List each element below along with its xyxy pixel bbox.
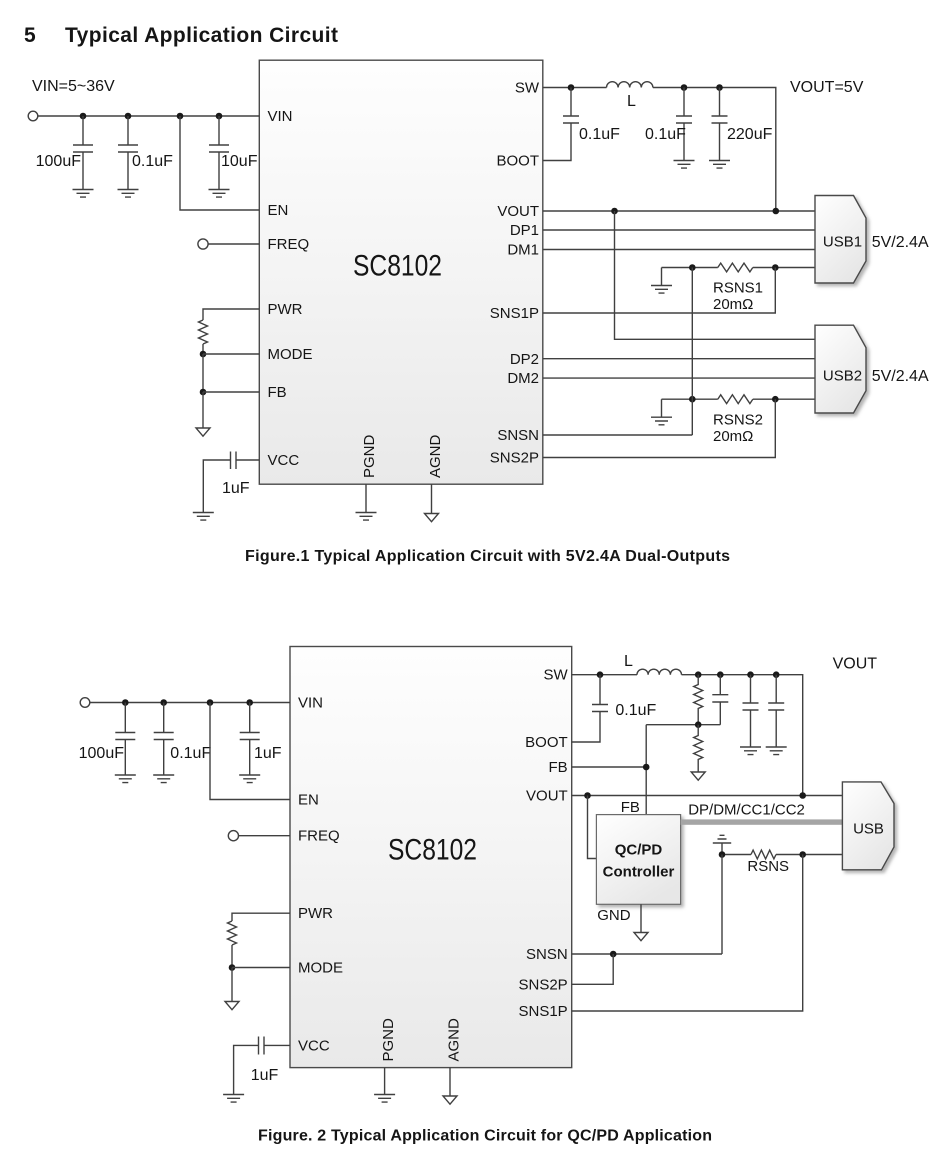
ground bbox=[118, 190, 139, 198]
wire PWR bbox=[203, 309, 259, 320]
node out cap2 bbox=[716, 84, 723, 91]
QC/PD controller U3 bbox=[596, 815, 680, 905]
wire VOUT bbox=[543, 210, 815, 212]
wire SNS1P bbox=[543, 268, 776, 314]
node SW-boot bbox=[568, 84, 575, 91]
wire SNSN vertical bbox=[691, 268, 693, 436]
svg-text:SNS2P: SNS2P bbox=[518, 976, 567, 993]
svg-text:VIN: VIN bbox=[268, 108, 293, 125]
svg-text:0.1uF: 0.1uF bbox=[170, 745, 211, 762]
bus DP/DM/CC1/CC2 bbox=[681, 819, 843, 824]
ground bbox=[709, 161, 730, 169]
wire inductor to VOUT rail bbox=[653, 88, 776, 212]
capacitor C2 0.1uF bbox=[118, 116, 138, 189]
ground bbox=[674, 161, 695, 169]
wire DP1 bbox=[543, 229, 815, 231]
svg-text:RSNS1: RSNS1 bbox=[713, 280, 763, 297]
wire DM2 bbox=[543, 377, 815, 379]
svg-text:VOUT: VOUT bbox=[833, 656, 878, 673]
svg-text:FB: FB bbox=[621, 799, 640, 816]
ground (signal) bbox=[425, 514, 439, 522]
input terminal bbox=[80, 698, 90, 708]
resistor RSNS1 bbox=[718, 263, 753, 272]
svg-text:USB2: USB2 bbox=[823, 368, 862, 385]
ground bbox=[223, 1095, 244, 1103]
svg-text:L: L bbox=[624, 653, 633, 670]
svg-text:VCC: VCC bbox=[298, 1037, 330, 1054]
ground (signal) bbox=[196, 428, 210, 436]
node MODE bbox=[229, 964, 236, 971]
ground bbox=[153, 775, 174, 783]
ground bbox=[374, 1095, 395, 1103]
resistor R1 (mode divider) bbox=[199, 320, 208, 344]
capacitor C7 220uF bbox=[712, 88, 728, 161]
wire SW to inductor bbox=[572, 674, 637, 676]
svg-text:SNS1P: SNS1P bbox=[518, 1003, 567, 1020]
ground (signal) bbox=[691, 772, 705, 780]
capacitor C12 0.1uF bootstrap bbox=[572, 675, 608, 742]
svg-text:VCC: VCC bbox=[268, 452, 300, 469]
svg-text:BOOT: BOOT bbox=[525, 734, 568, 751]
ground bbox=[209, 190, 230, 198]
svg-text:AGND: AGND bbox=[427, 434, 444, 478]
USB2 connector bbox=[815, 325, 866, 413]
node MODE bbox=[200, 351, 207, 358]
ground bbox=[239, 775, 260, 783]
svg-text:1uF: 1uF bbox=[254, 745, 282, 762]
node RSNS1 left bbox=[689, 264, 696, 271]
svg-text:5V/2.4A: 5V/2.4A bbox=[872, 234, 929, 251]
node divider top bbox=[695, 671, 702, 678]
capacitor C1 100uF bbox=[73, 116, 93, 189]
svg-text:FB: FB bbox=[549, 759, 568, 776]
wire VOUT to USB2 bbox=[615, 211, 816, 339]
svg-text:AGND: AGND bbox=[446, 1018, 463, 1062]
node RSNS right bbox=[799, 851, 806, 858]
svg-text:100uF: 100uF bbox=[36, 153, 82, 170]
svg-text:0.1uF: 0.1uF bbox=[645, 126, 686, 143]
node on VIN rail bbox=[216, 113, 223, 120]
inductor L bbox=[607, 82, 653, 88]
wire VOUT to controller bbox=[588, 796, 597, 859]
node FB bbox=[200, 389, 207, 396]
svg-text:DP2: DP2 bbox=[510, 351, 539, 368]
node VOUT-USB2 tap bbox=[611, 208, 618, 215]
svg-text:5V/2.4A: 5V/2.4A bbox=[872, 368, 929, 385]
ground (signal) bbox=[634, 933, 648, 941]
wire DM1 bbox=[543, 249, 815, 251]
ground bbox=[651, 286, 672, 294]
capacitor C5 0.1uF bootstrap bbox=[543, 88, 579, 161]
wire DP2 bbox=[543, 358, 815, 360]
inductor L bbox=[637, 669, 681, 675]
wire EN bbox=[210, 703, 290, 800]
wire PGND bbox=[365, 484, 367, 512]
svg-text:20mΩ: 20mΩ bbox=[713, 296, 753, 313]
svg-text:0.1uF: 0.1uF bbox=[579, 126, 620, 143]
wire inductor to VOUT rail bbox=[682, 675, 803, 796]
wire FB bbox=[203, 391, 259, 393]
svg-text:RSNS: RSNS bbox=[747, 858, 789, 875]
wire VOUT bbox=[572, 795, 843, 797]
node out cap1 bbox=[681, 84, 688, 91]
ground bbox=[356, 513, 377, 521]
svg-text:SNSN: SNSN bbox=[497, 427, 539, 444]
wire resistor to MODE node bbox=[231, 945, 233, 968]
input terminal bbox=[28, 111, 38, 121]
svg-text:PWR: PWR bbox=[268, 301, 303, 318]
FREQ terminal bbox=[198, 239, 208, 249]
capacitor C3 10uF bbox=[209, 116, 229, 189]
svg-text:PGND: PGND bbox=[361, 434, 378, 478]
op-amp U1 IC SC8102 body bbox=[259, 60, 543, 484]
svg-text:0.1uF: 0.1uF bbox=[615, 702, 656, 719]
svg-text:10uF: 10uF bbox=[221, 153, 258, 170]
svg-text:MODE: MODE bbox=[298, 960, 343, 977]
USB1 connector bbox=[815, 196, 866, 284]
svg-text:RSNS2: RSNS2 bbox=[713, 412, 763, 429]
node FB divider bbox=[695, 721, 702, 728]
svg-text:SNS1P: SNS1P bbox=[490, 305, 539, 322]
capacitor C9 0.1uF bbox=[154, 703, 174, 775]
svg-text:20mΩ: 20mΩ bbox=[713, 428, 753, 445]
wire SNS1P bbox=[572, 855, 803, 1012]
node ff cap top bbox=[717, 671, 724, 678]
resistor R2 (mode divider) bbox=[228, 921, 237, 945]
svg-text:FREQ: FREQ bbox=[298, 828, 340, 845]
svg-text:SW: SW bbox=[515, 80, 540, 97]
wire FREQ bbox=[208, 243, 259, 245]
wire SNSN bbox=[572, 855, 722, 955]
resistor RSNS2 bbox=[718, 395, 753, 404]
ground bbox=[740, 747, 761, 755]
wire PGND bbox=[384, 1068, 386, 1094]
node SNSN tap bbox=[610, 951, 617, 958]
wire PWR bbox=[232, 913, 290, 921]
node VOUT rail join bbox=[773, 208, 780, 215]
node RSNS left bbox=[719, 851, 726, 858]
chassis ground (inverted) bbox=[713, 835, 731, 854]
svg-text:5: 5 bbox=[24, 24, 36, 47]
svg-text:Typical Application Circuit: Typical Application Circuit bbox=[65, 24, 338, 47]
node out cap2 bbox=[773, 671, 780, 678]
wire RSNS2 net bbox=[662, 399, 816, 417]
wire AGND bbox=[449, 1068, 451, 1096]
node on VIN rail bbox=[246, 699, 253, 706]
ground (signal) bbox=[443, 1096, 457, 1104]
wire EN bbox=[180, 116, 259, 210]
svg-text:Controller: Controller bbox=[603, 864, 675, 881]
resistor RSNS bbox=[751, 850, 776, 859]
section heading "5 Typical Application Circuit" bbox=[24, 24, 338, 47]
wire FB to ground bbox=[202, 392, 204, 428]
svg-text:SNSN: SNSN bbox=[526, 946, 568, 963]
node on VIN rail bbox=[125, 113, 132, 120]
svg-text:MODE: MODE bbox=[268, 346, 313, 363]
svg-text:GND: GND bbox=[597, 907, 631, 924]
ground bbox=[651, 417, 672, 425]
svg-text:220uF: 220uF bbox=[727, 126, 773, 143]
wire SNSN bbox=[543, 434, 693, 436]
wire VIN rail bbox=[38, 115, 259, 117]
svg-text:SNS2P: SNS2P bbox=[490, 450, 539, 467]
svg-text:Figure.1 Typical Application C: Figure.1 Typical Application Circuit wit… bbox=[245, 548, 730, 565]
node RSNS2 right bbox=[772, 396, 779, 403]
resistor R4 feedback bottom bbox=[694, 725, 703, 772]
ground bbox=[115, 775, 136, 783]
node out cap1 bbox=[747, 671, 754, 678]
ground bbox=[766, 747, 787, 755]
capacitor C4 1uF on VCC bbox=[203, 452, 259, 513]
svg-text:USB: USB bbox=[853, 821, 884, 838]
svg-text:100uF: 100uF bbox=[79, 745, 125, 762]
wire FREQ bbox=[238, 835, 290, 837]
svg-text:PGND: PGND bbox=[380, 1018, 397, 1062]
resistor R3 feedback top bbox=[694, 675, 703, 725]
capacitor C8 100uF bbox=[115, 703, 135, 775]
node VOUT tap bbox=[584, 792, 591, 799]
capacitor C6 0.1uF bbox=[676, 88, 692, 161]
wire MODE to ground bbox=[231, 968, 233, 1002]
wire SNS2P bbox=[543, 399, 776, 457]
wire MODE bbox=[232, 967, 290, 969]
node on VIN rail bbox=[160, 699, 167, 706]
svg-text:1uF: 1uF bbox=[251, 1067, 279, 1084]
node FB pin bbox=[643, 764, 650, 771]
svg-text:Figure. 2 Typical Application: Figure. 2 Typical Application Circuit fo… bbox=[258, 1128, 712, 1145]
ground bbox=[73, 190, 94, 198]
capacitor C11 1uF on VCC bbox=[234, 1037, 290, 1095]
svg-text:EN: EN bbox=[268, 202, 289, 219]
node RSNS1 right bbox=[772, 264, 779, 271]
FREQ terminal bbox=[228, 831, 238, 841]
wire FB node to controller bbox=[645, 725, 647, 815]
svg-text:1uF: 1uF bbox=[222, 480, 250, 497]
IC U2 SC8102 body bbox=[290, 647, 572, 1068]
wire RSNS1 net bbox=[662, 268, 816, 286]
wire VIN rail bbox=[90, 702, 290, 704]
node on VIN rail bbox=[207, 699, 214, 706]
capacitor C15 output bbox=[768, 675, 784, 747]
svg-text:PWR: PWR bbox=[298, 905, 333, 922]
wire resistor to MODE node bbox=[202, 344, 204, 354]
capacitor C10 1uF bbox=[240, 703, 260, 775]
node SW-boot bbox=[597, 671, 604, 678]
capacitor C13 feedforward bbox=[712, 675, 728, 725]
svg-text:DP1: DP1 bbox=[510, 222, 539, 239]
wire controller GND bbox=[640, 904, 642, 932]
svg-text:USB1: USB1 bbox=[823, 234, 862, 251]
svg-text:L: L bbox=[627, 93, 636, 110]
svg-text:VIN=5~36V: VIN=5~36V bbox=[32, 78, 115, 95]
ground bbox=[193, 513, 214, 521]
ground (signal) bbox=[225, 1002, 239, 1010]
wire MODE to FB bbox=[202, 354, 204, 392]
svg-text:VOUT=5V: VOUT=5V bbox=[790, 79, 864, 96]
svg-text:QC/PD: QC/PD bbox=[615, 842, 663, 859]
svg-text:FREQ: FREQ bbox=[268, 236, 310, 253]
svg-text:DP/DM/CC1/CC2: DP/DM/CC1/CC2 bbox=[688, 802, 805, 819]
svg-text:SW: SW bbox=[544, 667, 569, 684]
svg-text:SC8102: SC8102 bbox=[353, 250, 442, 283]
wire AGND bbox=[431, 484, 433, 513]
svg-text:SC8102: SC8102 bbox=[388, 834, 477, 867]
svg-text:FB: FB bbox=[268, 384, 287, 401]
svg-text:VIN: VIN bbox=[298, 695, 323, 712]
wire MODE bbox=[203, 353, 259, 355]
wire FB pin bbox=[572, 766, 647, 768]
svg-text:DM2: DM2 bbox=[507, 370, 539, 387]
svg-text:VOUT: VOUT bbox=[497, 203, 539, 220]
USB connector bbox=[842, 782, 894, 870]
svg-text:0.1uF: 0.1uF bbox=[132, 153, 173, 170]
svg-text:BOOT: BOOT bbox=[496, 153, 539, 170]
wire SW to inductor bbox=[543, 87, 607, 89]
node on VIN rail bbox=[122, 699, 129, 706]
node on VIN rail bbox=[80, 113, 87, 120]
capacitor C14 output bbox=[743, 675, 759, 747]
node RSNS2 left bbox=[689, 396, 696, 403]
node VOUT rail join bbox=[799, 792, 806, 799]
wire SNS2P bbox=[572, 954, 614, 984]
svg-text:EN: EN bbox=[298, 792, 319, 809]
node on VIN rail bbox=[177, 113, 184, 120]
svg-text:DM1: DM1 bbox=[507, 242, 539, 259]
wire RSNS net bbox=[722, 854, 842, 856]
svg-text:VOUT: VOUT bbox=[526, 788, 568, 805]
wire FB node bbox=[646, 724, 720, 726]
